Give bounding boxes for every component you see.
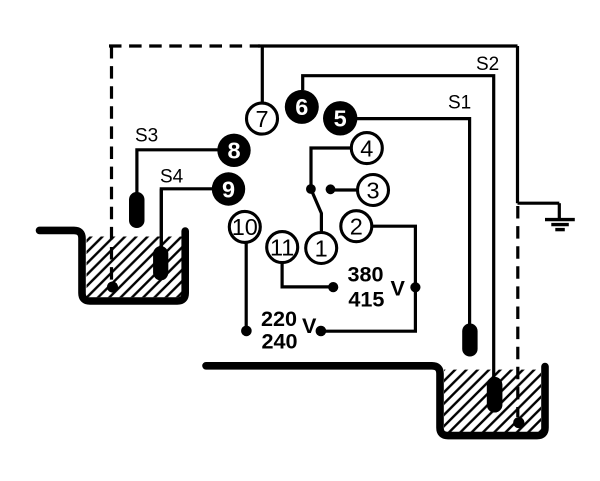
svg-text:1: 1	[315, 235, 328, 261]
wire: ground stem	[558, 203, 561, 219]
svg-text:S2: S2	[476, 54, 499, 75]
svg-text:8: 8	[227, 138, 240, 164]
node: switch contact dot (pin 4 side)	[306, 184, 316, 194]
wire: horizontal to ground symbol	[518, 202, 560, 205]
node: left tank junction dot over hatch	[107, 282, 118, 293]
electrode S4 (long electrode in left tank)	[153, 246, 168, 280]
svg-text:S1: S1	[448, 93, 471, 114]
terminal 1	[306, 233, 337, 264]
node: 220/240V terminal dot	[316, 326, 327, 337]
terminal 10	[229, 211, 260, 242]
left tank liquid hatching	[87, 237, 182, 298]
right tank liquid hatching	[444, 370, 541, 432]
wire: pin 11 to 380/415V side terminal	[282, 262, 333, 287]
ground	[545, 220, 575, 230]
right tank	[206, 366, 545, 436]
node: junction dot in right tank	[513, 417, 524, 428]
svg-text:9: 9	[222, 176, 235, 202]
svg-text:V: V	[391, 276, 406, 301]
terminal 9	[212, 172, 245, 205]
wire: S2 rail from pin 6	[303, 76, 494, 378]
terminal 4	[351, 133, 382, 164]
wire: S4 from pin 9	[161, 189, 212, 252]
wire: S4 electrode stem over hatch	[160, 189, 163, 252]
svg-text:V: V	[302, 313, 317, 338]
wire: S3 from pin 8	[137, 150, 218, 200]
wire: left dashed vertical into left tank	[110, 46, 113, 283]
wire: pin 3 to switch contact	[331, 188, 358, 191]
node: pin 11 wire end dot	[328, 282, 338, 292]
electrode S1 (short electrode above right tank)	[462, 324, 477, 357]
svg-text:380: 380	[348, 261, 384, 286]
wire: pin 10 down to 220/240V side terminal	[245, 242, 248, 327]
svg-text:7: 7	[255, 106, 268, 132]
svg-text:10: 10	[232, 214, 258, 240]
svg-text:3: 3	[366, 177, 379, 203]
electrode S2 body over hatch	[487, 377, 502, 413]
wire: pin 4 to switch contact	[311, 148, 352, 189]
wire: vertical from top rail to pin 7	[261, 46, 264, 103]
terminal 5	[323, 101, 357, 135]
wire: top solid rail from pin 7 to right side	[258, 44, 518, 47]
redraw electrodes over hatch: electrode S4 body	[153, 246, 168, 280]
node: right tank junction dot over hatch	[513, 417, 524, 428]
svg-text:4: 4	[360, 135, 373, 161]
node: pin 10 wire end dot	[241, 326, 252, 337]
svg-text:S3: S3	[135, 126, 158, 147]
svg-text:11: 11	[270, 234, 294, 260]
svg-text:415: 415	[348, 287, 384, 312]
wire: right vertical of top rail down to ground	[516, 46, 519, 203]
terminal 11	[267, 232, 298, 263]
svg-text:S4: S4	[160, 166, 184, 187]
terminal 3	[358, 175, 389, 206]
svg-text:220: 220	[261, 306, 297, 331]
node: 380/415V tap dot	[410, 282, 420, 292]
wire: pin 2 to 220/240V terminal	[322, 226, 415, 331]
terminal 7	[247, 103, 278, 134]
wire: switch arm from pin 1	[311, 189, 322, 233]
wire: top dashed rail (earth electrode net)	[109, 44, 260, 47]
svg-text:6: 6	[295, 94, 308, 120]
electrode S3 (short electrode above left tank)	[129, 192, 145, 228]
wire: S1 rail from pin 5	[356, 119, 470, 330]
terminal 6	[285, 90, 319, 124]
svg-text:5: 5	[334, 106, 347, 132]
svg-text:2: 2	[350, 214, 363, 240]
terminal 2	[341, 211, 372, 242]
node: switch contact dot (pin 3 side)	[326, 184, 336, 194]
electrode S2 (long electrode in right tank)	[487, 377, 502, 413]
svg-text:240: 240	[262, 329, 298, 354]
wire: right dashed vertical down into right tank	[516, 206, 519, 417]
terminal 8	[217, 134, 250, 167]
node: junction dot in left tank	[107, 282, 118, 293]
left tank	[40, 230, 186, 301]
